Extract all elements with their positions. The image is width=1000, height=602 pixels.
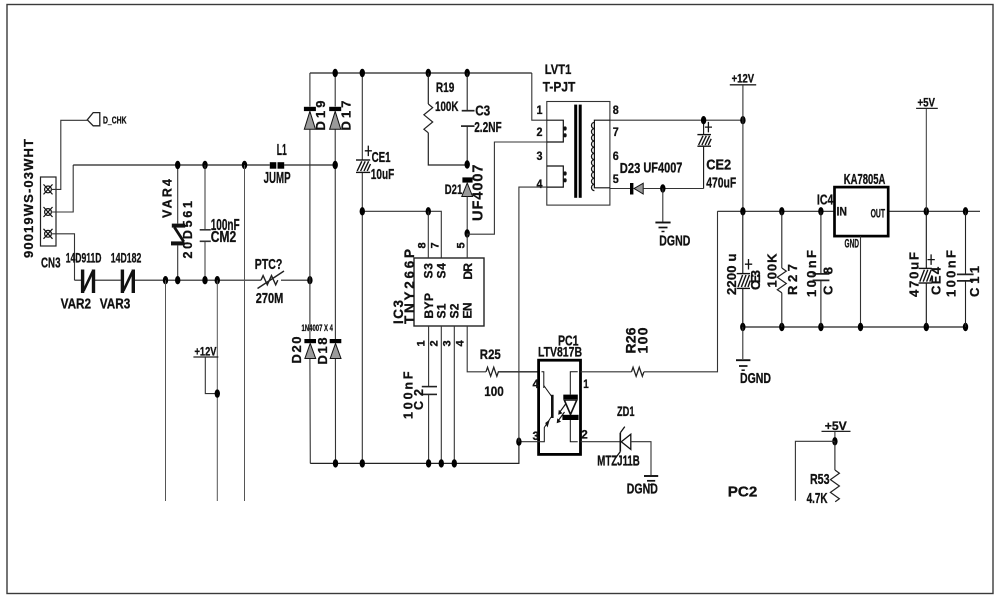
svg-text:UF4007: UF4007 (471, 165, 487, 222)
svg-text:1: 1 (583, 377, 589, 391)
svg-text:OUT: OUT (871, 207, 886, 221)
svg-text:2: 2 (429, 340, 441, 346)
junction dot +12V tap (215, 389, 220, 397)
IC U-IC3 TNY266P box (414, 258, 484, 326)
svg-text:+12V: +12V (732, 73, 755, 85)
varistor VAR2 (83, 270, 94, 294)
connector CN3 body (41, 177, 57, 246)
CE1 plus sign (365, 146, 372, 157)
junction dot brail CE4 (924, 323, 929, 331)
svg-text:4.7K: 4.7K (807, 491, 828, 507)
capacitor CE2 (electrolytic) (697, 120, 711, 188)
wire bridge column 1 (D19/D20) (309, 73, 311, 463)
transformer secondary winding (594, 120, 610, 188)
svg-text:R25: R25 (480, 346, 501, 362)
svg-text:DGND: DGND (627, 481, 658, 497)
junction dot bottom bus pin1 (426, 459, 431, 467)
CE2 plus sign (705, 122, 712, 132)
svg-text:2: 2 (537, 125, 543, 139)
diode D21 (462, 177, 473, 233)
svg-text:C3: C3 (475, 104, 490, 120)
svg-text:PC2: PC2 (728, 485, 758, 501)
svg-text:100nF: 100nF (943, 250, 958, 297)
svg-text:+5V: +5V (918, 98, 936, 110)
wire snubber node line y211 (362, 211, 441, 258)
wire output rail to KA7805 (718, 210, 835, 212)
svg-text:PTC?: PTC? (255, 257, 283, 273)
junction dot rail C11 (963, 207, 968, 215)
junction dot brail R27 (779, 323, 784, 331)
svg-text:CE1: CE1 (372, 149, 391, 166)
optocoupler PC1 box (539, 360, 581, 454)
resistor R25 (486, 367, 539, 376)
wire D23 cathode node (643, 188, 703, 190)
junction dot rail R27 (779, 207, 784, 215)
svg-text:CE2: CE2 (706, 157, 731, 174)
junction dot D21 anode node (465, 229, 470, 237)
capacitor C2 (422, 387, 437, 395)
svg-text:VAR4: VAR4 (161, 179, 175, 218)
wire x244 column (244, 165, 246, 501)
wire CN3 pin3 to lower AC bus (51, 234, 75, 280)
varistor VAR4 (171, 165, 185, 280)
junction dot lower bus CM2 (202, 276, 207, 284)
svg-text:JUMP: JUMP (264, 170, 291, 187)
svg-text:L1: L1 (277, 142, 287, 159)
svg-text:S2: S2 (448, 303, 462, 318)
diode D23 (630, 183, 643, 195)
svg-text:LTV817B: LTV817B (538, 344, 582, 360)
wire +12V tap (205, 358, 217, 394)
svg-text:KA7805A: KA7805A (844, 172, 886, 188)
capacitor CE1 (electrolytic) (356, 160, 371, 172)
svg-text:14D911D: 14D911D (66, 249, 102, 265)
svg-text:7: 7 (613, 125, 619, 139)
wire top rectified bus (310, 72, 532, 74)
wire bottom secondary rail (743, 326, 966, 328)
junction dot bottom bus CE1 (360, 459, 365, 467)
svg-text:TNY266P: TNY266P (402, 249, 417, 324)
junction dot brail CE3 (740, 323, 745, 331)
capacitor CE3 (electrolytic) (737, 211, 751, 327)
CN3 pin 3 circle (44, 229, 53, 239)
junction dot brail C8 (818, 323, 823, 331)
resistor R53 (830, 441, 839, 502)
junction dot rail +12V (740, 207, 745, 215)
svg-text:3: 3 (533, 429, 540, 443)
svg-text:DR: DR (461, 263, 475, 280)
svg-text:D21: D21 (445, 181, 463, 197)
svg-text:6: 6 (613, 149, 619, 163)
junction dot top bus C3 (465, 69, 470, 77)
wire +5V node branch left (795, 441, 835, 500)
svg-text:5: 5 (613, 172, 619, 186)
transformer primary winding 1 (547, 120, 564, 142)
resistor R26 (632, 367, 644, 376)
wire x217 column down (216, 280, 218, 501)
inductor L1 (jumper) (270, 162, 277, 169)
junction dot +12V line top (740, 116, 745, 124)
resistor R19 (424, 73, 467, 165)
transformer primary winding 2 (547, 166, 564, 187)
wire bridge column 2 (D17/D18) (334, 73, 336, 463)
svg-text:VAR2: VAR2 (61, 296, 92, 313)
PC1 inner LED (562, 372, 578, 442)
wire bottom return bus (310, 442, 519, 464)
svg-text:100: 100 (484, 383, 504, 399)
wire x165 column down (165, 280, 167, 501)
svg-text:4: 4 (537, 177, 543, 191)
capacitor C11 (957, 211, 974, 327)
svg-text:CE3: CE3 (748, 270, 763, 290)
svg-text:8: 8 (417, 242, 429, 248)
junction dot CM2 top (202, 161, 207, 169)
svg-text:1: 1 (537, 103, 543, 117)
svg-text:470uF: 470uF (906, 252, 921, 297)
svg-text:1N4007 X 4: 1N4007 X 4 (302, 323, 334, 334)
wire +5V stub to node (834, 432, 836, 441)
wire D21 node to transformer pin2 (467, 142, 547, 234)
junction dot lower bus VAR4 (175, 276, 180, 284)
varistor VAR3 (122, 270, 133, 294)
junction dot bottom bus pin2 (439, 459, 444, 467)
ground DGND (bottom rail) (736, 360, 750, 370)
junction dot y211 pin8 (426, 207, 431, 215)
junction dot rail C8/IN (818, 207, 823, 215)
svg-text:IC4: IC4 (817, 192, 834, 208)
junction dot lower bus right end (307, 276, 312, 284)
svg-text:C11: C11 (967, 263, 982, 297)
CN3 pin 1 circle (44, 184, 53, 194)
svg-text:DGND: DGND (659, 234, 690, 250)
transformer core bars (574, 105, 577, 198)
regulator IC4 KA7805A box (835, 187, 889, 236)
svg-text:CM2: CM2 (211, 229, 237, 246)
svg-text:1: 1 (416, 340, 428, 346)
wire brail to DGND (742, 327, 744, 359)
PC1 inner phototransistor (542, 372, 553, 442)
svg-text:4: 4 (455, 340, 467, 347)
junction dot bottom bus D18 (333, 459, 338, 467)
svg-text:3: 3 (442, 340, 454, 346)
svg-text:EN: EN (461, 303, 475, 319)
junction dot y211 CE1 (360, 207, 365, 215)
junction dot +5V node (832, 437, 837, 445)
zener diode ZD1 (616, 427, 631, 458)
svg-text:R19: R19 (436, 79, 455, 95)
junction dot brail C11 (963, 323, 968, 331)
wire +12V column (742, 85, 744, 211)
capacitor CM2 (200, 165, 211, 280)
svg-text:CN3: CN3 (41, 256, 61, 272)
svg-text:470uF: 470uF (706, 175, 736, 192)
wire top bus to transformer pin1 (532, 73, 547, 120)
wire KA7805 GND pin (860, 236, 862, 327)
svg-text:R53: R53 (810, 472, 830, 488)
wire stub to DGND (D23 node) (662, 189, 664, 222)
ground DGND (under ZD1) (644, 476, 658, 485)
capacitor C8 (813, 211, 830, 327)
wire CN3 pin2 to top AC bus (51, 165, 73, 212)
junction dot rail +5V (924, 207, 929, 215)
junction dot x244 top (242, 161, 247, 169)
junction dot D23 node (660, 184, 665, 192)
wire +5V column (925, 109, 927, 211)
wire TNY pin 4 / EN to R25 (467, 326, 486, 372)
svg-text:3: 3 (537, 149, 543, 163)
svg-text:DGND: DGND (740, 371, 771, 387)
wire KA7805 OUT rail (888, 210, 980, 212)
svg-text:LVT1: LVT1 (545, 61, 572, 77)
transformer LVT1 box (547, 102, 610, 206)
svg-text:20D561: 20D561 (181, 201, 195, 259)
primary winding 1 bumps (563, 126, 566, 130)
svg-text:S4: S4 (435, 263, 449, 279)
junction dot top bus D17 (333, 69, 338, 77)
svg-text:T-PJT: T-PJT (543, 78, 576, 94)
diode D18 (330, 339, 342, 359)
junction dot top bus CE1 (360, 69, 365, 77)
junction dot CE2 top (701, 116, 706, 124)
svg-text:UF4007: UF4007 (643, 161, 682, 177)
svg-text:100K: 100K (435, 98, 459, 114)
wire TNY pin 8 (427, 211, 429, 258)
junction dot brail GND (858, 323, 863, 331)
svg-text:D23: D23 (620, 161, 641, 177)
svg-text:IN: IN (837, 204, 848, 218)
wire transformer pin5 to D23 (610, 188, 630, 190)
svg-text:14D182: 14D182 (111, 249, 142, 265)
svg-text:8: 8 (613, 103, 619, 117)
resistor R27 (777, 211, 786, 327)
svg-text:4: 4 (533, 377, 540, 391)
diode D17 (329, 107, 341, 130)
capacitor C3 (461, 73, 475, 165)
primary winding 2 bumps (563, 171, 566, 175)
svg-text:D20: D20 (289, 337, 304, 364)
junction dot lower bus x217 (215, 276, 220, 284)
thermistor PTC (258, 271, 285, 289)
svg-text:ZD1: ZD1 (617, 403, 635, 419)
wire CE1 column (361, 73, 363, 463)
CN3 pin 2 circle (44, 207, 53, 217)
svg-text:7: 7 (430, 242, 442, 248)
wire ZD1 to ground (631, 442, 651, 475)
svg-text:D19: D19 (313, 101, 328, 131)
svg-text:MTZJ11B: MTZJ11B (597, 453, 640, 469)
wire PC1 pin1 to R26 and rail riser (581, 211, 718, 371)
svg-text:S3: S3 (422, 263, 436, 279)
wire TNY pin 1 / BYP with C2 (428, 326, 430, 463)
junction dot VAR4 top (175, 161, 180, 169)
wire CN3 pin1 to D_CHK (51, 120, 87, 189)
wire PC1 pin2 to ZD1 (581, 441, 621, 443)
wire transformer pin4 to PC1 pin3 (519, 187, 547, 442)
svg-text:D18: D18 (315, 338, 330, 365)
svg-text:D_CHK: D_CHK (103, 115, 127, 127)
junction dot lower bus x165 (163, 276, 168, 284)
svg-text:100: 100 (635, 327, 651, 353)
junction dot PC1 pin3 node (516, 438, 521, 446)
svg-text:D17: D17 (339, 101, 354, 131)
net tag D_CHK (87, 113, 100, 126)
svg-text:VAR3: VAR3 (100, 296, 131, 313)
junction dot R19/C3/D21 node (465, 160, 470, 168)
svg-text:R27: R27 (785, 264, 800, 295)
wire TNY pin 3 (453, 326, 455, 463)
svg-text:CE4: CE4 (928, 266, 943, 295)
diode D20 (304, 339, 316, 359)
svg-text:270M: 270M (256, 291, 283, 307)
wire TNY pin 5 / DR (466, 234, 468, 259)
wire top AC bus (L1 line) (73, 164, 335, 166)
wire transformer pin8 to +12V rail (610, 119, 743, 121)
CE4 plus sign (928, 254, 935, 265)
svg-text:2.2NF: 2.2NF (474, 120, 502, 136)
CE3 plus sign (745, 259, 752, 270)
junction dot top bus R19 (426, 69, 431, 77)
secondary winding bumps (592, 122, 595, 190)
svg-text:2200 u: 2200 u (724, 253, 739, 295)
svg-text:2: 2 (581, 428, 588, 442)
PC1 light arrows (558, 404, 566, 422)
svg-text:10uF: 10uF (371, 166, 395, 183)
svg-text:5: 5 (456, 242, 468, 248)
diode D19 (304, 107, 316, 130)
junction dot bottom bus pin3 (452, 459, 457, 467)
capacitor CE4 (electrolytic) (919, 211, 933, 327)
wire PC1 pin3 node (519, 441, 542, 443)
wire lower AC bus (75, 279, 310, 281)
ground DGND (D23 node) (655, 223, 670, 232)
svg-text:S1: S1 (435, 303, 449, 318)
svg-text:100nF: 100nF (804, 250, 819, 297)
wire TNY pin 2 (440, 326, 442, 463)
svg-text:90019WS-03WHT: 90019WS-03WHT (21, 139, 36, 258)
svg-text:GND: GND (845, 237, 860, 251)
svg-text:100K: 100K (764, 253, 779, 288)
junction dot AC bus meets D17 column (333, 161, 338, 169)
